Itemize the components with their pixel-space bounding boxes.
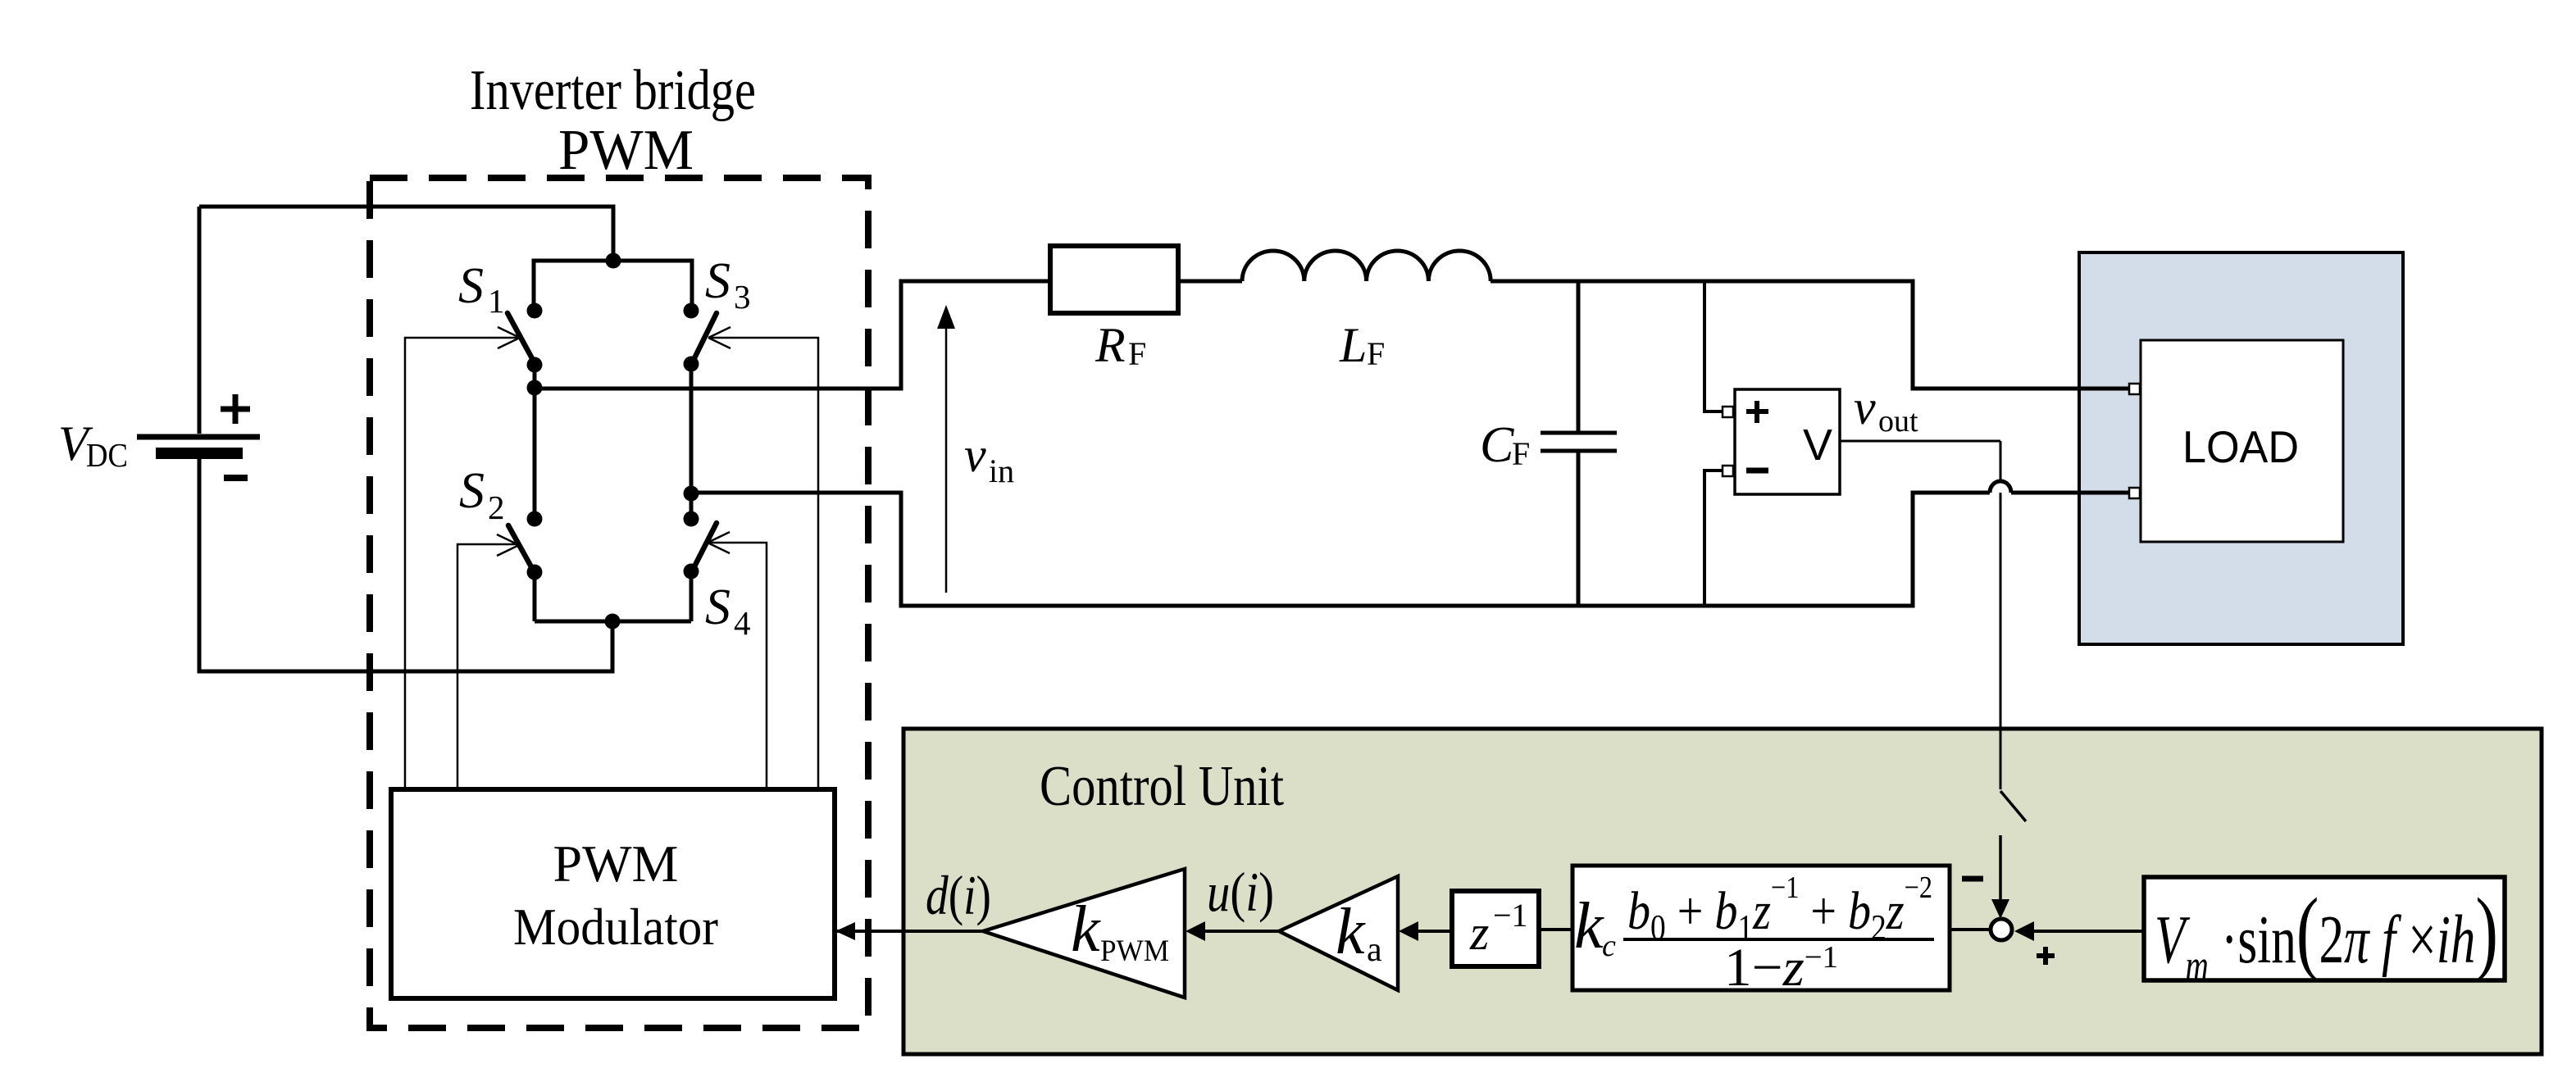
svg-text:c: c <box>1602 929 1616 963</box>
svg-text:LOAD: LOAD <box>2182 421 2299 472</box>
svg-text:Inverter bridge: Inverter bridge <box>470 59 756 122</box>
svg-text:DC: DC <box>86 436 128 474</box>
svg-text:d(i): d(i) <box>926 864 991 926</box>
svg-text:L: L <box>1339 318 1367 372</box>
svg-text:2: 2 <box>488 489 505 526</box>
svg-text:PWM: PWM <box>1100 934 1169 968</box>
svg-text:Modulator: Modulator <box>513 898 718 956</box>
svg-text:PWM: PWM <box>553 834 679 893</box>
svg-text:V: V <box>1803 421 1832 470</box>
svg-text:in: in <box>989 452 1014 489</box>
svg-text:v: v <box>1854 380 1876 434</box>
svg-text:F: F <box>1512 435 1530 472</box>
svg-text:z: z <box>1469 906 1489 960</box>
svg-text:out: out <box>1878 404 1918 439</box>
svg-text:F: F <box>1367 335 1385 372</box>
svg-text:R: R <box>1095 318 1126 372</box>
svg-text:Control Unit: Control Unit <box>1040 755 1284 818</box>
svg-text:v: v <box>964 428 986 482</box>
svg-text:k: k <box>1071 893 1101 966</box>
svg-text:3: 3 <box>734 278 751 316</box>
svg-text:4: 4 <box>734 604 751 642</box>
svg-text:a: a <box>1367 931 1382 969</box>
svg-text:k: k <box>1336 896 1366 968</box>
svg-text:S: S <box>705 253 730 309</box>
svg-text:1: 1 <box>488 282 505 320</box>
svg-text:F: F <box>1128 335 1146 372</box>
svg-text:S: S <box>459 463 485 519</box>
svg-text:C: C <box>1480 417 1514 473</box>
svg-text:S: S <box>458 258 484 314</box>
svg-text:PWM: PWM <box>558 119 694 182</box>
svg-text:u(i): u(i) <box>1207 861 1274 923</box>
svg-text:k: k <box>1574 890 1604 962</box>
svg-text:−1: −1 <box>1493 897 1528 934</box>
svg-text:S: S <box>705 580 730 635</box>
